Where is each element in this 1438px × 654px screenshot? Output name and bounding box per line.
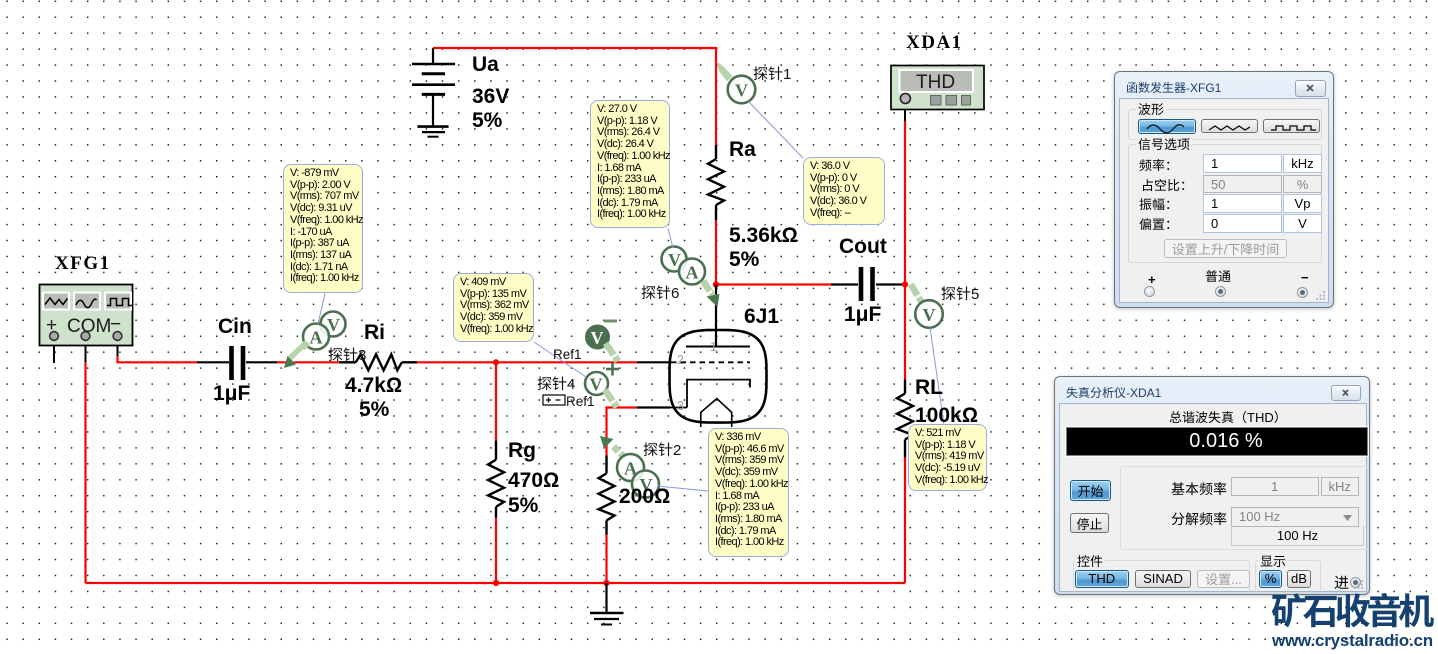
probe 6 A circle bbox=[679, 259, 705, 285]
pin 3 bbox=[677, 400, 684, 413]
svg-text:V: V bbox=[591, 328, 604, 348]
resistor Rg bbox=[488, 441, 504, 518]
label Rg 470 bbox=[508, 470, 559, 491]
label probe6 bbox=[641, 285, 679, 300]
label Cin bbox=[218, 316, 252, 337]
tooltip probe6 bbox=[590, 100, 670, 228]
probe 2 V circle bbox=[632, 471, 659, 498]
label Ref1 a bbox=[553, 347, 582, 361]
XFG1 terminals bbox=[50, 332, 122, 341]
tube 6J1 envelope bbox=[670, 330, 767, 423]
XFG1 COM lead bbox=[85, 340, 87, 362]
XDA1 terminal bbox=[900, 94, 910, 104]
instrument XDA1 lead bbox=[904, 102, 906, 121]
ground (battery) bbox=[417, 127, 448, 137]
node: output junction bbox=[902, 281, 908, 287]
tube 6J1 cathode bbox=[670, 380, 750, 408]
resistor Ri bbox=[339, 354, 417, 370]
tube cathode lead bbox=[637, 406, 670, 408]
probe 4 ref box bbox=[543, 395, 565, 405]
probe 5 V circle bbox=[915, 300, 943, 328]
tooltip probe5 bbox=[908, 424, 987, 491]
probe 4 minus circle bbox=[586, 321, 617, 349]
ground (main) bbox=[590, 613, 624, 625]
probe 1 arrow bbox=[717, 62, 741, 90]
label 5.36k bbox=[729, 225, 798, 246]
node: grid junction bbox=[493, 359, 499, 365]
wire: Rk bottom to ground rail bbox=[605, 535, 607, 584]
label Rg 5% bbox=[508, 495, 538, 516]
pin 2 bbox=[677, 354, 684, 367]
wire: COM vertical bbox=[84, 362, 86, 583]
label Ri 4.7k bbox=[345, 375, 402, 396]
wire: Rg bottom to ground rail bbox=[495, 518, 497, 584]
label Cout 1uF bbox=[844, 304, 881, 325]
wire: Ra bottom to plate junction bbox=[715, 220, 717, 285]
probe 6 arrow bbox=[700, 279, 720, 307]
tube 6J1 heater bbox=[701, 399, 732, 427]
resistor Ra bbox=[708, 145, 724, 220]
label XFG1 bbox=[55, 254, 111, 273]
label Rk 200 bbox=[619, 486, 670, 507]
svg-text:V: V bbox=[923, 305, 936, 325]
probe 3 A circle bbox=[303, 324, 329, 350]
XFG1 terminal labels bbox=[46, 314, 121, 337]
svg-text:−: − bbox=[110, 314, 121, 335]
label Rg bbox=[508, 440, 536, 461]
tube 6J1 plate lead bbox=[715, 285, 717, 347]
capacitor Cout leads bbox=[831, 283, 903, 285]
probe 4 plus arrow bbox=[602, 388, 620, 409]
label Cin 1uF bbox=[213, 383, 250, 404]
probe 4 plus circle bbox=[585, 363, 619, 396]
label XDA1 bbox=[906, 33, 963, 52]
label RL bbox=[915, 377, 943, 398]
label Ra 5% bbox=[729, 249, 759, 270]
svg-text:+: + bbox=[46, 315, 57, 336]
label Ri bbox=[364, 322, 385, 343]
wire: cathode to Rk bbox=[607, 408, 638, 456]
leader line probe 5 bbox=[930, 328, 944, 425]
pin 1 bbox=[710, 341, 717, 354]
probe 5 arrow bbox=[908, 283, 924, 304]
capacitor Cin leads bbox=[197, 361, 277, 363]
probe 4 minus arrow bbox=[603, 342, 621, 364]
label Cout bbox=[839, 236, 887, 257]
svg-text:A: A bbox=[686, 263, 699, 283]
instrument XDA1 body bbox=[891, 66, 984, 110]
tooltip probe4 bbox=[453, 273, 534, 342]
leader line probe 6 bbox=[668, 229, 673, 249]
wire: RL bottom to ground rail bbox=[904, 458, 906, 584]
svg-text:COM: COM bbox=[67, 316, 111, 337]
label probe4 bbox=[537, 376, 575, 391]
resistor RL bbox=[897, 380, 913, 458]
label Ua bbox=[472, 54, 499, 75]
label probe1 bbox=[753, 66, 791, 81]
wire: minus terminal to Cin bbox=[118, 356, 198, 362]
wire: junction to Cout bbox=[716, 283, 831, 285]
probe 2 arrow bbox=[600, 436, 628, 461]
svg-text:THD: THD bbox=[916, 72, 955, 93]
svg-text:V: V bbox=[735, 81, 748, 101]
label RL 100k bbox=[915, 405, 978, 426]
label 6J1 bbox=[744, 306, 779, 327]
probe 1 V circle bbox=[728, 76, 756, 104]
wire: Ri to grid node bbox=[417, 361, 496, 363]
wire: Rg top bbox=[495, 362, 497, 440]
watermark crystalradio bbox=[1271, 591, 1430, 627]
leader line probe 3 bbox=[318, 294, 325, 325]
tube 6J1 plate bbox=[686, 346, 750, 348]
tube grid lead bbox=[637, 361, 670, 363]
label probe3 bbox=[328, 347, 366, 362]
tooltip probe1 bbox=[803, 157, 885, 225]
probe 3 arrow bbox=[284, 340, 310, 368]
wire: bottom ground rail bbox=[86, 582, 906, 584]
XDA1 buttons bbox=[931, 96, 971, 106]
leader line probe 4 bbox=[534, 342, 586, 377]
tooltip probe2 bbox=[708, 428, 789, 557]
XFG1 minus lead bbox=[117, 340, 119, 356]
label Ref1 b bbox=[566, 394, 595, 408]
label 36V bbox=[472, 86, 509, 107]
XFG1 plus stub bbox=[53, 340, 55, 363]
XDA1 display bbox=[900, 70, 974, 93]
tube 6J1 grid (dashed) bbox=[671, 361, 750, 363]
wire: grid node to tube grid bbox=[496, 361, 637, 363]
probe 3 V circle bbox=[321, 312, 346, 337]
node: plate junction bbox=[713, 281, 719, 287]
probe 6 V circle bbox=[662, 247, 687, 272]
wire: Cin to Ri bbox=[277, 361, 339, 363]
leader line probe 1 bbox=[748, 101, 803, 158]
node: Rg ground junction bbox=[493, 580, 499, 586]
probe 2 A circle bbox=[617, 454, 644, 481]
label probe2 bbox=[643, 442, 681, 457]
battery Ua bbox=[412, 48, 455, 126]
tooltip probe3 bbox=[283, 164, 363, 293]
node: main ground junction bbox=[603, 580, 609, 586]
leader line probe 2 bbox=[657, 486, 708, 491]
label Ua 5% bbox=[472, 110, 502, 131]
dialog XDA1 bbox=[1054, 376, 1370, 595]
label Ri 5% bbox=[359, 399, 389, 420]
capacitor Cin plates bbox=[232, 346, 244, 380]
svg-text:A: A bbox=[310, 328, 323, 348]
label Ra bbox=[729, 139, 756, 160]
resistor Rk 200 ohm bbox=[599, 456, 615, 535]
wire: XDA1 down to output junction and on to RL bbox=[904, 121, 906, 380]
label probe5 bbox=[941, 286, 979, 301]
wire: battery top to Ra top (net V+) bbox=[433, 48, 716, 145]
XFG1 waveform buttons bbox=[43, 293, 132, 310]
dialog XFG1 bbox=[1114, 71, 1334, 308]
instrument XFG1 body bbox=[40, 285, 133, 346]
capacitor Cout plates bbox=[861, 267, 873, 301]
ground (main) lead bbox=[605, 583, 607, 613]
